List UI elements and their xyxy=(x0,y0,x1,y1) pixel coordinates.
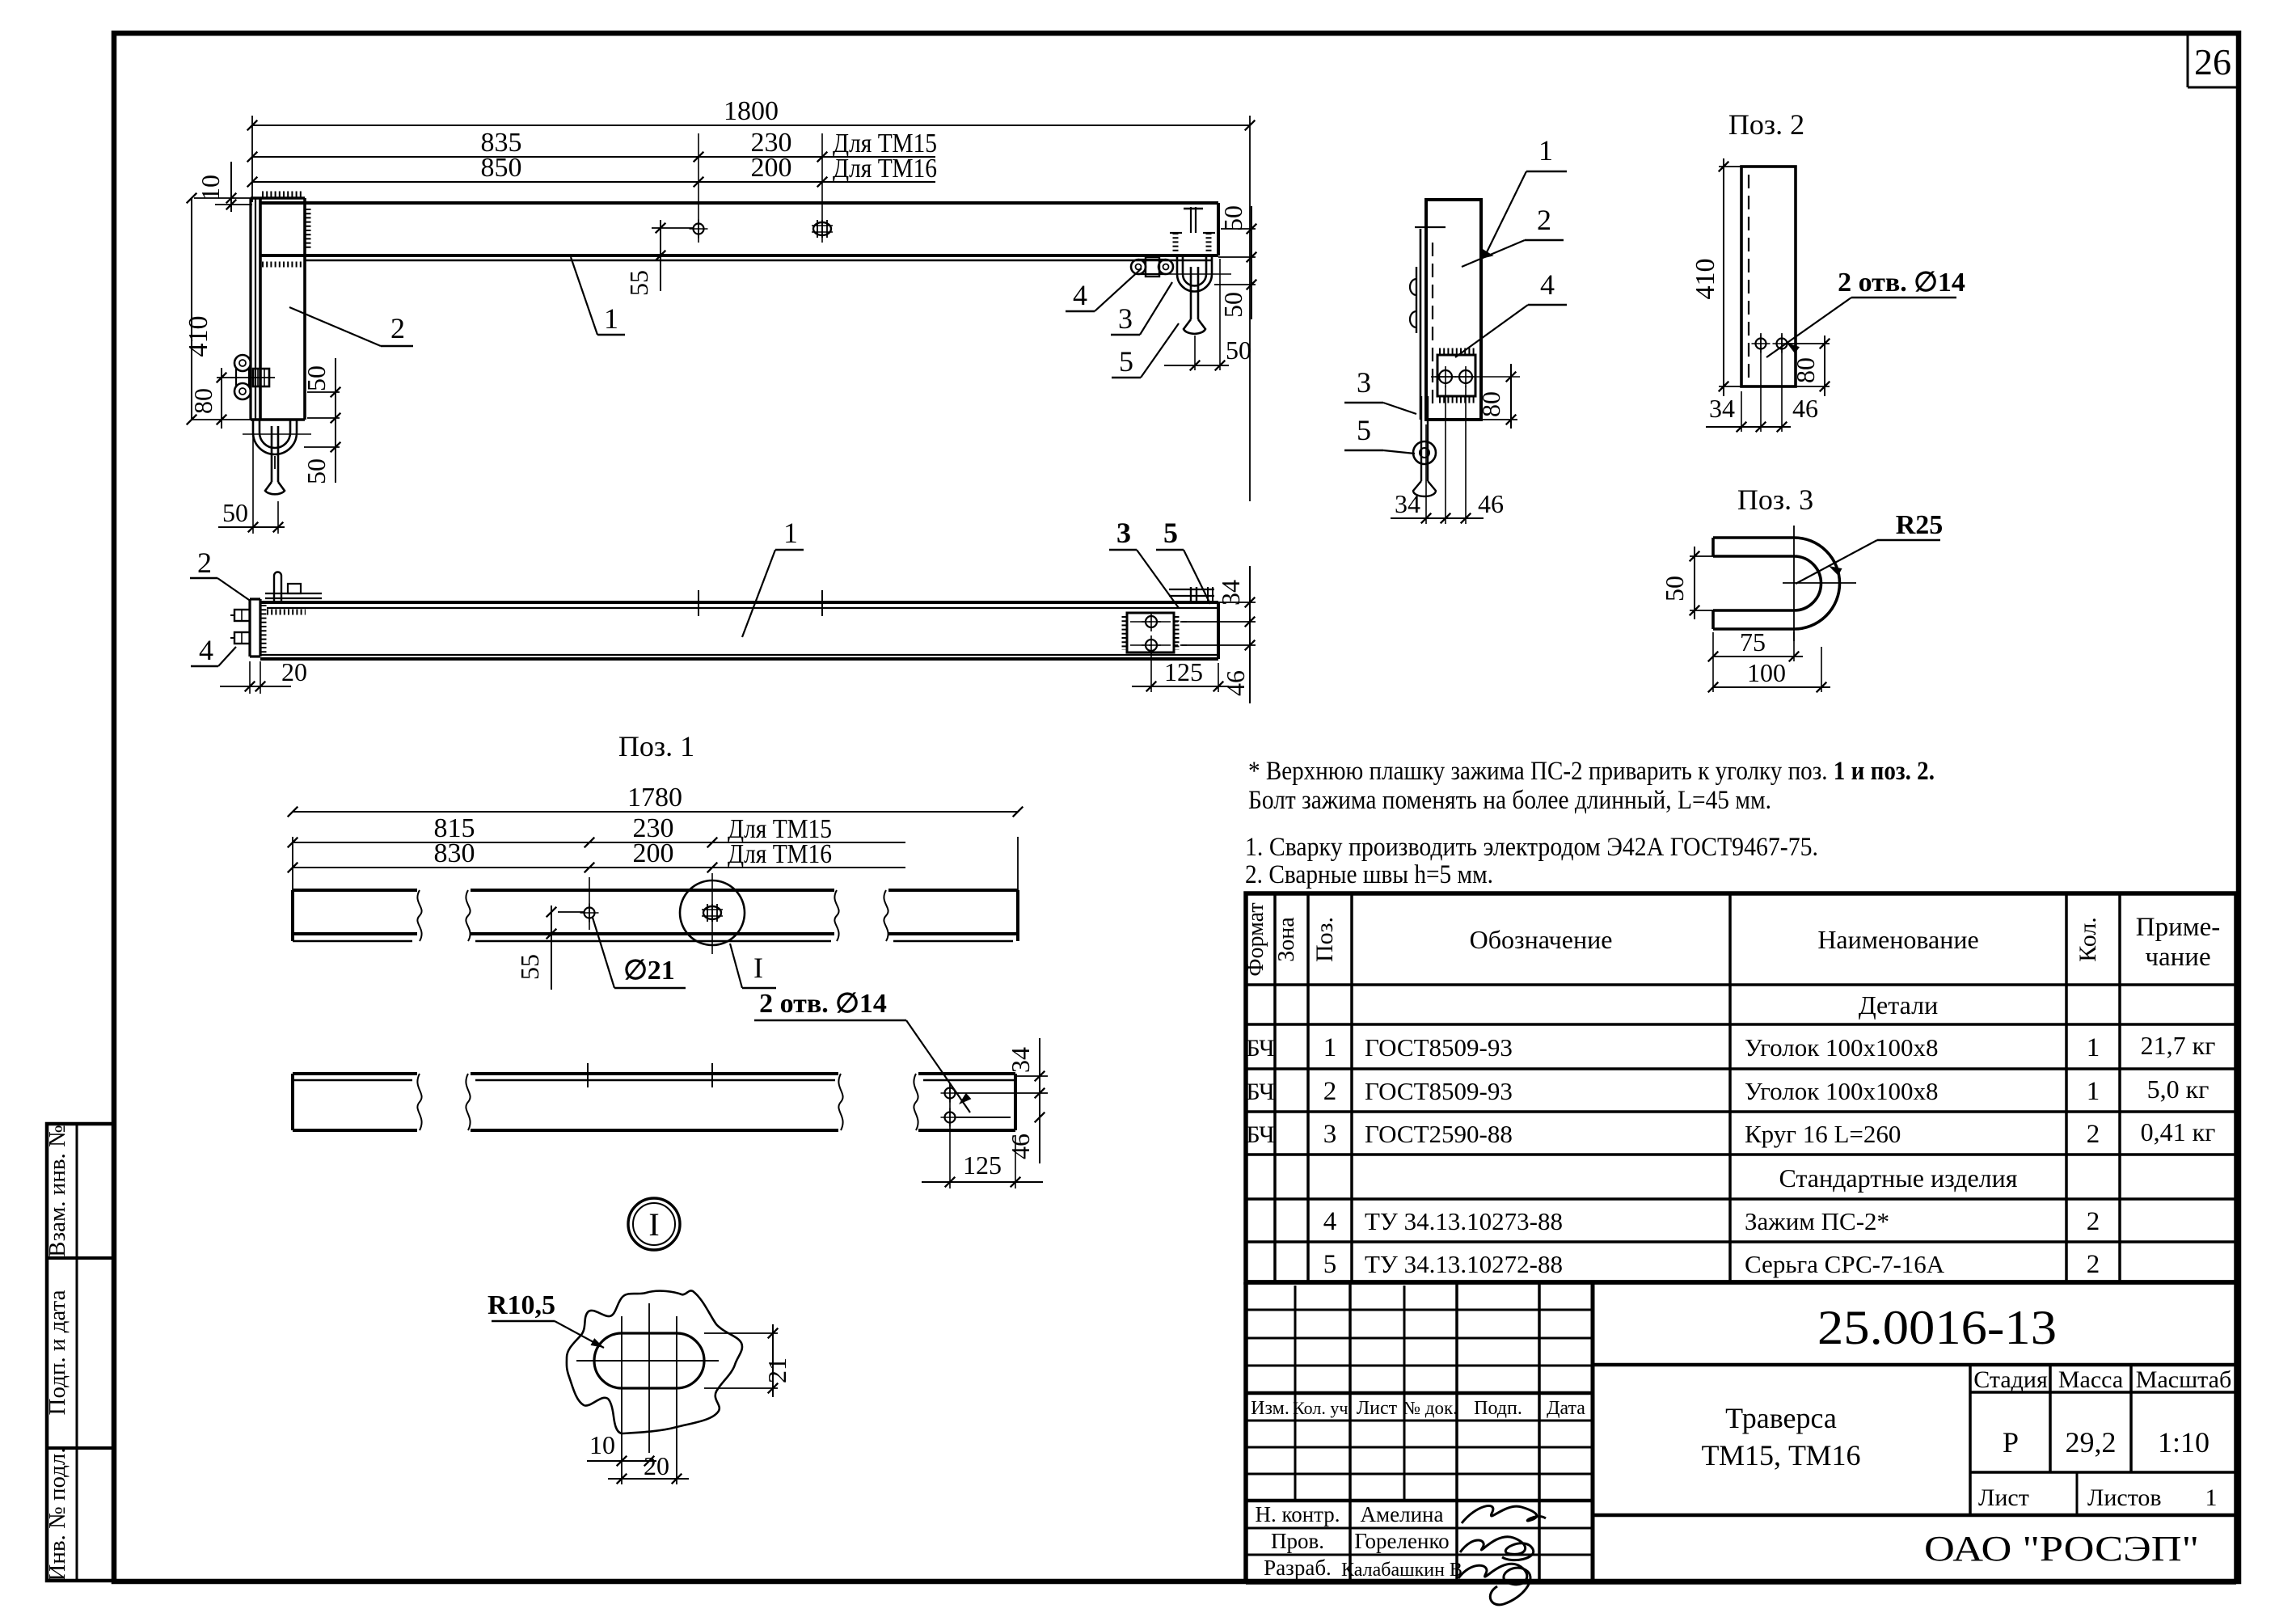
svg-text:100: 100 xyxy=(1747,658,1786,687)
poz1 top band segment B xyxy=(466,890,470,941)
svg-text:Формат: Формат xyxy=(1243,902,1268,976)
svg-text:1: 1 xyxy=(2087,1077,2100,1106)
main view dims 50 50 left xyxy=(307,391,340,393)
top view right clamp poz4 xyxy=(1127,613,1174,652)
svg-text:29,2: 29,2 xyxy=(2066,1426,2117,1459)
svg-text:Дата: Дата xyxy=(1547,1398,1585,1419)
svg-text:Масштаб: Масштаб xyxy=(2136,1366,2231,1393)
main view dim 50 bottom left xyxy=(252,424,254,534)
svg-text:Поз. 3: Поз. 3 xyxy=(1737,483,1813,516)
svg-text:2: 2 xyxy=(1537,204,1551,236)
signature scribbles xyxy=(1462,1505,1546,1523)
svg-text:34: 34 xyxy=(1216,580,1245,606)
svg-text:Детали: Детали xyxy=(1859,990,1938,1020)
svg-text:2: 2 xyxy=(197,547,212,579)
svg-text:Взам. инв. №: Взам. инв. № xyxy=(44,1125,70,1256)
svg-text:50: 50 xyxy=(1218,205,1247,231)
svg-text:34: 34 xyxy=(1395,489,1420,518)
poz1 bottom band segment B xyxy=(466,1074,470,1130)
poz1 dims 34 46 right xyxy=(1015,1075,1048,1077)
svg-text:410: 410 xyxy=(1690,259,1720,300)
poz2 angle rect xyxy=(1741,167,1796,386)
svg-text:1: 1 xyxy=(604,302,618,335)
svg-text:Разраб.: Разраб. xyxy=(1264,1556,1332,1580)
svg-text:БЧ: БЧ xyxy=(1246,1079,1274,1105)
stage mass scale values xyxy=(1970,1471,2236,1474)
side view shackle poz5 xyxy=(1420,396,1422,481)
svg-text:Масса: Масса xyxy=(2058,1366,2123,1393)
svg-text:Серьга СРС-7-16А: Серьга СРС-7-16А xyxy=(1745,1250,1945,1278)
svg-text:5: 5 xyxy=(1119,345,1133,378)
svg-text:* Верхнюю плашку зажима ПС-2 п: * Верхнюю плашку зажима ПС-2 приварить к… xyxy=(1248,757,1935,786)
svg-text:1: 1 xyxy=(1538,134,1553,167)
top view right bolt above xyxy=(1169,589,1214,590)
main view dim 835 230 line xyxy=(252,156,935,158)
svg-text:Приме-: Приме- xyxy=(2136,913,2221,942)
svg-text:20: 20 xyxy=(644,1451,669,1480)
detail I blob outline xyxy=(567,1290,742,1433)
svg-text:Подп. и дата: Подп. и дата xyxy=(44,1290,70,1415)
left margin stamp strip xyxy=(47,1124,114,1581)
svg-text:410: 410 xyxy=(184,316,213,357)
main view dim 55 xyxy=(652,227,694,229)
svg-text:1800: 1800 xyxy=(724,96,779,126)
poz1 top band segment C xyxy=(884,890,888,941)
detail I callout circle xyxy=(628,1198,680,1250)
svg-text:1780: 1780 xyxy=(627,783,682,813)
side view clamp poz4 xyxy=(1437,355,1475,396)
svg-text:25.0016-13: 25.0016-13 xyxy=(1817,1301,2057,1354)
poz1 bottom band segment C xyxy=(914,1074,918,1130)
svg-text:3: 3 xyxy=(1323,1120,1337,1149)
title block left rows xyxy=(1246,1309,1593,1311)
clamp PS-2 left poz4 xyxy=(234,355,251,371)
svg-text:50: 50 xyxy=(222,498,248,527)
main view angle poz1 bar xyxy=(260,201,1218,205)
svg-text:80: 80 xyxy=(1791,357,1820,383)
right end clamp poz4 front xyxy=(1173,233,1179,255)
svg-text:Поз.: Поз. xyxy=(1311,917,1338,962)
svg-text:Кол.: Кол. xyxy=(2074,917,2101,962)
svg-text:34: 34 xyxy=(1709,394,1735,423)
poz1 hole d21 xyxy=(585,908,595,918)
svg-text:4: 4 xyxy=(1540,268,1555,301)
list listov row xyxy=(1593,1514,2236,1518)
svg-text:3: 3 xyxy=(1357,366,1371,399)
svg-text:Изм.: Изм. xyxy=(1251,1398,1289,1419)
svg-text:Лист: Лист xyxy=(1357,1398,1398,1419)
svg-text:ГОСТ8509-93: ГОСТ8509-93 xyxy=(1365,1077,1513,1105)
svg-text:Кол. уч.: Кол. уч. xyxy=(1293,1398,1353,1418)
svg-text:1: 1 xyxy=(2087,1033,2100,1062)
shackle poz5 right front xyxy=(1190,267,1192,319)
svg-text:ТУ 34.13.10272-88: ТУ 34.13.10272-88 xyxy=(1365,1250,1563,1278)
poz2 holes 2x d14 xyxy=(1756,339,1766,349)
svg-text:10: 10 xyxy=(589,1430,615,1459)
svg-text:Обозначение: Обозначение xyxy=(1470,925,1613,954)
detail I dim 21 xyxy=(704,1332,778,1334)
svg-text:Гореленко: Гореленко xyxy=(1354,1529,1449,1553)
svg-text:0,41 кг: 0,41 кг xyxy=(2141,1117,2216,1146)
svg-text:830: 830 xyxy=(434,838,475,868)
svg-text:46: 46 xyxy=(1221,670,1250,696)
svg-text:4: 4 xyxy=(1323,1207,1337,1236)
poz2 dim 80 xyxy=(1788,343,1830,344)
svg-text:Уголок 100х100х8: Уголок 100х100х8 xyxy=(1745,1077,1939,1105)
poz3 dim 100 xyxy=(1712,632,1714,692)
title block outer xyxy=(1246,1280,2236,1285)
svg-text:∅21: ∅21 xyxy=(623,956,675,986)
svg-text:5: 5 xyxy=(1357,414,1371,446)
svg-text:2: 2 xyxy=(2087,1250,2100,1279)
svg-text:2 отв. ∅14: 2 отв. ∅14 xyxy=(759,989,887,1019)
svg-text:50: 50 xyxy=(1218,292,1247,318)
poz3 dim 50 xyxy=(1690,555,1713,557)
side view dim 80 xyxy=(1481,419,1517,420)
poz2 dim 410 xyxy=(1719,166,1745,167)
svg-text:Зона: Зона xyxy=(1274,917,1299,962)
side view angle poz2 face xyxy=(1426,200,1481,420)
svg-text:2 отв. ∅14: 2 отв. ∅14 xyxy=(1838,268,1965,298)
svg-text:Подп.: Подп. xyxy=(1474,1398,1522,1419)
U-bolt right poz3 front xyxy=(1176,255,1179,274)
svg-text:Для ТМ16: Для ТМ16 xyxy=(728,839,832,869)
svg-text:46: 46 xyxy=(1792,394,1818,423)
svg-text:200: 200 xyxy=(751,153,792,183)
side view U-bolt poz3 edge xyxy=(1416,267,1417,333)
main view dim 10 xyxy=(194,197,252,199)
svg-text:1. Сварку производить электрод: 1. Сварку производить электродом Э42А ГО… xyxy=(1245,833,1818,862)
svg-text:2: 2 xyxy=(390,312,405,344)
svg-text:Траверса: Траверса xyxy=(1725,1402,1837,1434)
svg-text:Калабашкин В: Калабашкин В xyxy=(1341,1560,1462,1581)
svg-text:I: I xyxy=(648,1206,659,1243)
poz3 centerlines xyxy=(1793,526,1795,641)
svg-text:чание: чание xyxy=(2145,943,2210,972)
U-bolt left poz3 front xyxy=(252,420,255,433)
svg-text:ТУ 34.13.10273-88: ТУ 34.13.10273-88 xyxy=(1365,1207,1563,1235)
top view dim 20 xyxy=(249,661,251,694)
top view left clamp poz4 xyxy=(234,610,250,621)
svg-text:50: 50 xyxy=(1660,576,1689,602)
svg-text:3: 3 xyxy=(1118,302,1133,335)
svg-text:БЧ: БЧ xyxy=(1246,1035,1274,1062)
svg-text:2: 2 xyxy=(2087,1207,2100,1236)
svg-text:Зажим ПС-2*: Зажим ПС-2* xyxy=(1745,1207,1889,1235)
sheet number box 26 xyxy=(2187,36,2189,87)
svg-text:Р: Р xyxy=(2003,1426,2019,1459)
svg-text:Амелина: Амелина xyxy=(1361,1502,1444,1526)
poz1 dim 830 200 xyxy=(293,867,905,868)
poz1 bottom band segment A xyxy=(293,1072,417,1075)
svg-text:5: 5 xyxy=(1323,1250,1337,1279)
svg-text:Для ТМ16: Для ТМ16 xyxy=(833,154,937,184)
svg-text:20: 20 xyxy=(281,657,307,686)
svg-text:125: 125 xyxy=(963,1150,1002,1180)
svg-text:4: 4 xyxy=(199,634,213,666)
poz1 detail I circle xyxy=(680,880,745,945)
svg-text:21,7 кг: 21,7 кг xyxy=(2141,1031,2216,1060)
svg-text:80: 80 xyxy=(188,388,217,414)
side view hidden dashed line xyxy=(1432,243,1433,408)
top view left bolt above xyxy=(273,576,275,602)
svg-text:80: 80 xyxy=(1476,391,1505,417)
svg-text:26: 26 xyxy=(2194,41,2231,82)
main view holes xyxy=(694,224,704,234)
svg-text:Стадия: Стадия xyxy=(1973,1366,2048,1393)
svg-text:125: 125 xyxy=(1164,657,1203,686)
svg-text:ОАО "РОСЭП": ОАО "РОСЭП" xyxy=(1924,1529,2199,1568)
svg-text:БЧ: БЧ xyxy=(1246,1121,1274,1148)
svg-text:75: 75 xyxy=(1740,627,1766,657)
top view hole position ticks xyxy=(698,590,699,616)
svg-text:Поз. 1: Поз. 1 xyxy=(618,730,694,762)
svg-text:ГОСТ2590-88: ГОСТ2590-88 xyxy=(1365,1120,1513,1148)
shackle poz5 left front xyxy=(271,426,273,482)
top view dim 125 xyxy=(1150,651,1152,692)
top view dims 34 46 right xyxy=(1218,602,1256,603)
detail I dim 20 xyxy=(608,1478,689,1480)
svg-text:46: 46 xyxy=(1006,1134,1035,1159)
svg-text:850: 850 xyxy=(481,153,522,183)
main view dim 850 200 line xyxy=(252,181,935,183)
svg-text:I: I xyxy=(753,952,763,984)
main view dim 410 xyxy=(191,198,192,420)
main view dims 50 50 right xyxy=(1221,228,1256,230)
svg-text:50: 50 xyxy=(302,365,331,391)
svg-text:ГОСТ8509-93: ГОСТ8509-93 xyxy=(1365,1033,1513,1062)
detail I dim 10 xyxy=(587,1460,656,1462)
svg-text:55: 55 xyxy=(624,270,653,296)
svg-text:Пров.: Пров. xyxy=(1271,1529,1324,1553)
top view bar poz1 xyxy=(260,601,1218,604)
poz1 bottom band hole ticks xyxy=(587,1063,589,1087)
svg-text:50: 50 xyxy=(302,458,331,484)
side view dim 34 46 xyxy=(1425,424,1427,524)
svg-text:1: 1 xyxy=(1323,1033,1337,1062)
svg-text:3: 3 xyxy=(1116,517,1131,549)
top view left flange poz2 xyxy=(248,599,251,657)
svg-text:55: 55 xyxy=(515,954,544,980)
svg-text:10: 10 xyxy=(196,175,225,201)
poz3 top leg xyxy=(1713,536,1794,539)
poz2 dim 34 46 xyxy=(1741,391,1742,432)
svg-text:Поз. 2: Поз. 2 xyxy=(1728,108,1804,141)
poz1 dim 125 xyxy=(1015,1135,1016,1188)
poz3 dim 75 xyxy=(1793,632,1795,661)
main view dim 80 left xyxy=(217,377,233,378)
svg-text:R25: R25 xyxy=(1896,510,1944,540)
specification table grid xyxy=(1246,893,2236,1282)
svg-text:ТМ15, ТМ16: ТМ15, ТМ16 xyxy=(1701,1439,1860,1471)
svg-text:Уголок 100х100х8: Уголок 100х100х8 xyxy=(1745,1033,1939,1062)
svg-text:Лист: Лист xyxy=(1978,1484,2029,1511)
weld seam combs left xyxy=(262,192,304,197)
main view dim 50 bottom right xyxy=(1194,336,1196,370)
poz1 top band segment A xyxy=(293,889,417,892)
svg-text:Стандартные изделия: Стандартные изделия xyxy=(1779,1163,2018,1193)
svg-text:1: 1 xyxy=(2205,1484,2218,1511)
svg-text:Листов: Листов xyxy=(2087,1484,2162,1511)
main view dim 1800 line xyxy=(251,116,253,202)
svg-text:5,0 кг: 5,0 кг xyxy=(2147,1074,2209,1104)
svg-text:Инв. № подл.: Инв. № подл. xyxy=(44,1447,70,1581)
stadija massa masshtab header xyxy=(1970,1391,2236,1394)
svg-text:46: 46 xyxy=(1478,489,1504,518)
svg-text:Болт зажима поменять на более: Болт зажима поменять на более длинный, L… xyxy=(1248,786,1771,815)
poz2 hidden dashed line xyxy=(1748,175,1749,378)
title block left columns xyxy=(1294,1286,1297,1501)
svg-text:4: 4 xyxy=(1073,279,1087,311)
svg-text:2: 2 xyxy=(1323,1077,1337,1106)
svg-text:Н. контр.: Н. контр. xyxy=(1255,1502,1340,1526)
svg-text:21: 21 xyxy=(762,1357,791,1383)
svg-text:1:10: 1:10 xyxy=(2158,1426,2209,1459)
main view vertical angle poz2 xyxy=(249,198,251,420)
poz1 dim 815 230 xyxy=(293,842,905,843)
poz3 bottom leg xyxy=(1713,609,1794,612)
svg-text:34: 34 xyxy=(1006,1047,1035,1073)
svg-text:50: 50 xyxy=(1226,336,1251,365)
svg-text:Круг 16 L=260: Круг 16 L=260 xyxy=(1745,1120,1901,1148)
svg-text:R10,5: R10,5 xyxy=(487,1290,555,1320)
poz1 two holes d14 xyxy=(945,1088,956,1099)
svg-text:1: 1 xyxy=(783,517,798,549)
detail I centerlines xyxy=(576,1360,719,1362)
svg-text:2. Сварные швы h=5 мм.: 2. Сварные швы h=5 мм. xyxy=(1245,860,1493,889)
poz3 bend arcs R25 xyxy=(1794,538,1840,629)
poz1 dim 55 xyxy=(558,911,584,913)
side view weld triangle xyxy=(1481,249,1492,258)
poz1 dim 1780 xyxy=(292,837,293,890)
side view poz1 edge strip xyxy=(1420,229,1422,420)
svg-text:200: 200 xyxy=(633,838,674,868)
svg-text:2: 2 xyxy=(2087,1120,2100,1149)
svg-text:Наименование: Наименование xyxy=(1817,925,1978,954)
detail I slot R10.5 xyxy=(594,1333,704,1388)
svg-text:№ док.: № док. xyxy=(1403,1398,1458,1418)
svg-text:5: 5 xyxy=(1163,517,1178,549)
